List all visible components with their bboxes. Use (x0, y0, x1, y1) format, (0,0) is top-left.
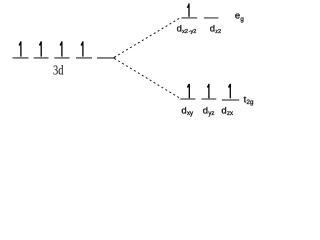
svg-text:e: e (235, 10, 240, 21)
electron arrow on 3d #3 (60, 41, 62, 56)
svg-text:d: d (221, 105, 226, 116)
electron arrow on dyz (207, 84, 209, 99)
svg-text:d: d (181, 105, 186, 116)
level line 3d #3 (54, 57, 69, 59)
svg-text:xy: xy (187, 111, 193, 117)
svg-text:zx: zx (227, 111, 233, 117)
electron arrow on dx2-y2 (187, 3, 189, 16)
electron arrow on 3d #4 (81, 41, 83, 56)
t2g level line dyz (202, 98, 217, 100)
label eg (235, 10, 245, 23)
svg-text:yz: yz (208, 111, 214, 117)
level line 3d #2 (34, 57, 49, 59)
label dzx (221, 105, 233, 117)
dashed correlation line to t2g (114, 58, 180, 98)
electron arrow on dxy (187, 84, 189, 99)
electron arrow on 3d #1 (19, 41, 21, 56)
svg-text:z2: z2 (215, 29, 221, 35)
level line 3d #4 (76, 57, 92, 59)
label dz2 (210, 24, 221, 36)
label dxy (181, 105, 193, 117)
label dyz (203, 105, 215, 117)
label t2g (244, 94, 254, 106)
svg-text:d: d (177, 24, 182, 35)
eg level line dx2-y2 (181, 17, 197, 19)
svg-text:g: g (240, 16, 244, 23)
dashed correlation line to eg (114, 17, 181, 57)
svg-text:x2-y2: x2-y2 (182, 29, 196, 35)
svg-text:d: d (203, 105, 208, 116)
svg-text:2g: 2g (247, 99, 254, 106)
electron arrow on dzx (229, 84, 231, 99)
level line 3d #1 (13, 57, 29, 59)
t2g level line dzx (222, 99, 239, 101)
t2g level line dxy (180, 98, 195, 100)
level line 3d #5 (97, 57, 114, 59)
label dx2-y2 (177, 24, 197, 36)
svg-text:3d: 3d (53, 64, 64, 79)
junction node (114, 57, 116, 59)
eg level line dz2 (204, 17, 219, 19)
electron arrow on 3d #2 (39, 41, 41, 56)
